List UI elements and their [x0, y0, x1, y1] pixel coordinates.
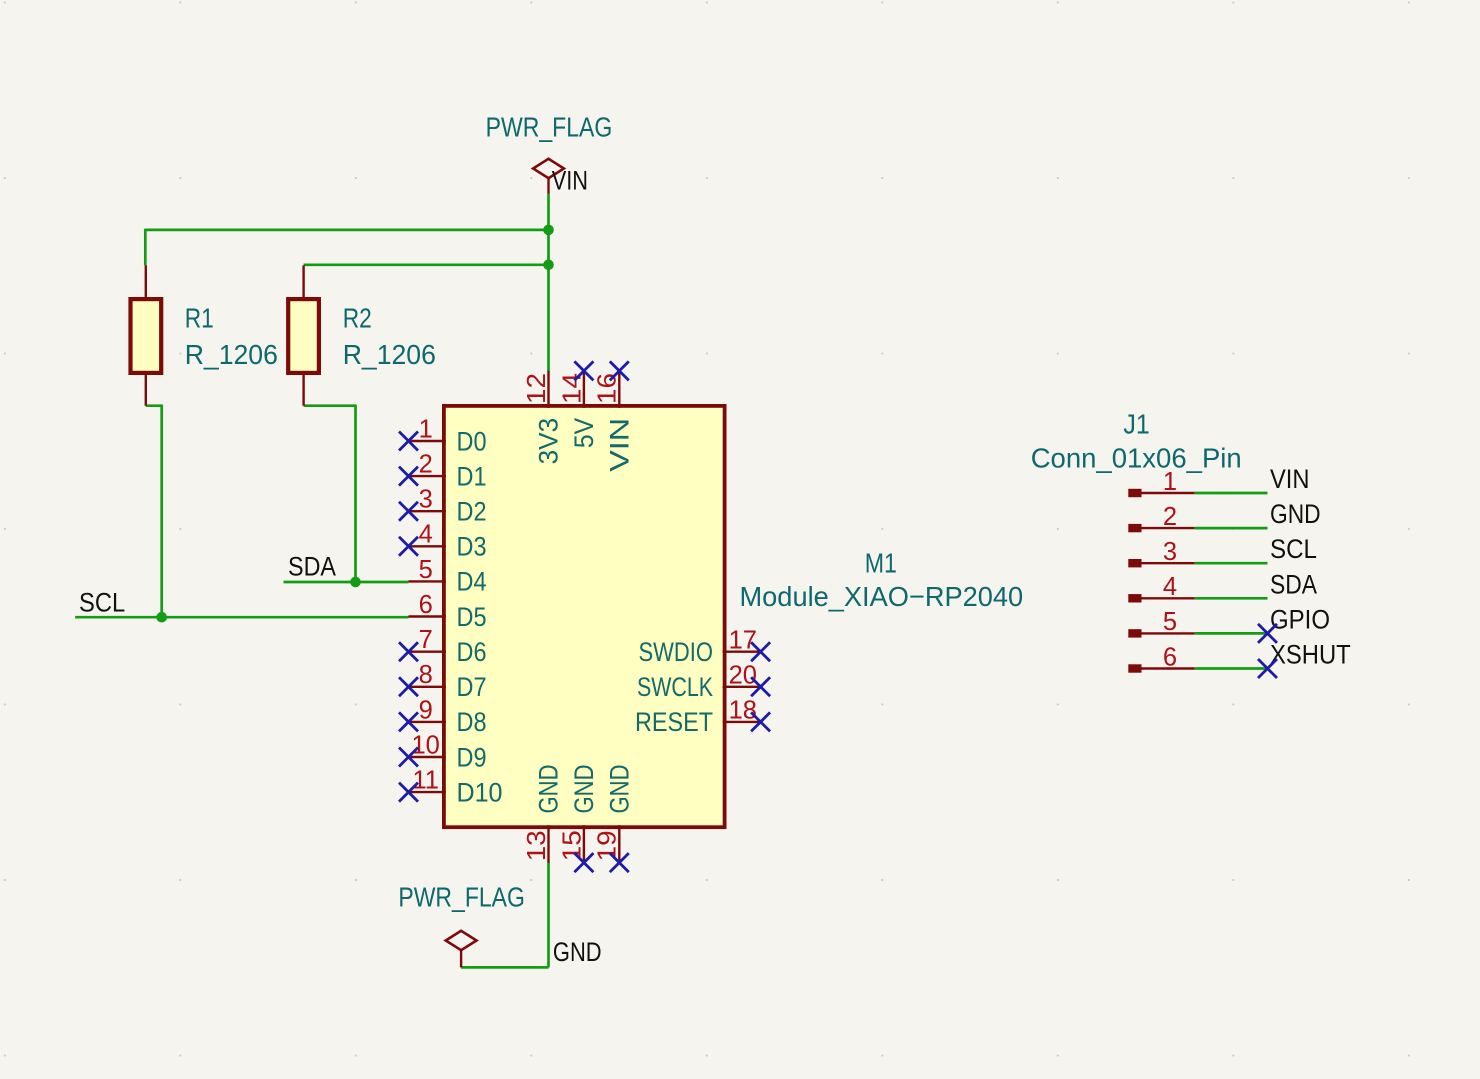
- junction: SDA wire to R2 branch: [350, 577, 361, 588]
- no-connect J1 pin 6: [1258, 659, 1277, 678]
- svg-text:GND: GND: [553, 937, 602, 967]
- wire: J1 pin 5 to net GPIO: [1195, 632, 1268, 635]
- wire: J1 pin 6 to net XSHUT: [1195, 667, 1268, 670]
- no-connect M1 pin 3: [399, 502, 418, 521]
- svg-text:D2: D2: [457, 497, 487, 527]
- M1 pin 2 (D1) left side: [409, 451, 487, 492]
- no-connect M1 pin 14: [574, 361, 593, 380]
- svg-text:9: 9: [419, 696, 433, 724]
- svg-text:R_1206: R_1206: [343, 339, 436, 370]
- M1 pin 9 (D8) left side: [409, 696, 487, 737]
- no-connect M1 pin 4: [399, 537, 418, 556]
- svg-text:8: 8: [419, 661, 433, 689]
- svg-text:GND: GND: [604, 765, 634, 814]
- power flag PWR_FLAG on VIN net: [533, 159, 564, 194]
- no-connect M1 pin 10: [399, 748, 418, 767]
- svg-text:11: 11: [412, 767, 438, 795]
- svg-text:4: 4: [419, 521, 433, 549]
- no-connect M1 pin 1: [399, 432, 418, 451]
- svg-text:SDA: SDA: [288, 551, 336, 581]
- svg-text:14: 14: [558, 373, 586, 404]
- svg-text:XSHUT: XSHUT: [1270, 640, 1351, 670]
- J1 pin 3: [1128, 538, 1194, 567]
- wire: R2 to SDA vertical: [354, 405, 357, 583]
- svg-text:SDA: SDA: [1270, 569, 1317, 599]
- svg-text:20: 20: [729, 661, 757, 689]
- svg-text:D4: D4: [457, 567, 487, 597]
- wire: J1 pin 4 to net SDA: [1195, 597, 1268, 600]
- wire: SCL horizontal: [75, 616, 408, 619]
- svg-text:7: 7: [419, 626, 433, 654]
- svg-text:D10: D10: [457, 777, 503, 807]
- svg-text:1: 1: [419, 415, 433, 443]
- svg-text:R1: R1: [185, 303, 214, 334]
- junction: VIN wire to R2 branch: [543, 260, 554, 271]
- no-connect M1 pin 9: [399, 712, 418, 731]
- no-connect M1 pin 8: [399, 677, 418, 696]
- svg-text:M1: M1: [865, 548, 897, 579]
- svg-text:3: 3: [1163, 538, 1177, 566]
- svg-text:D9: D9: [457, 742, 487, 772]
- svg-text:GPIO: GPIO: [1270, 604, 1330, 634]
- wire: R1 to SCL vertical: [160, 405, 163, 618]
- junction: SCL wire to R1 branch: [156, 612, 167, 623]
- svg-text:16: 16: [594, 373, 622, 404]
- svg-text:18: 18: [729, 697, 757, 725]
- svg-text:4: 4: [1163, 573, 1177, 601]
- svg-text:17: 17: [729, 626, 757, 654]
- M1 pin 14 (5V) top side: [558, 371, 599, 448]
- M1 pin 7 (D6) left side: [409, 626, 487, 667]
- no-connect M1 pin 7: [399, 642, 418, 661]
- svg-text:19: 19: [594, 830, 622, 861]
- wire: R1 bottom jog horizontal: [146, 404, 162, 407]
- wire: J1 pin 1 to net VIN: [1195, 492, 1268, 495]
- svg-text:12: 12: [523, 373, 551, 404]
- wire: VIN net horizontal to R2: [304, 263, 549, 266]
- M1 pin 3 (D2) left side: [409, 486, 487, 527]
- no-connect M1 pin 19: [610, 853, 629, 872]
- svg-text:1: 1: [1163, 468, 1177, 496]
- M1 pin 13 (GND) bottom side: [523, 765, 564, 863]
- svg-text:13: 13: [523, 830, 551, 861]
- wire: SDA horizontal: [284, 581, 409, 584]
- svg-text:5: 5: [419, 556, 433, 584]
- M1 pin 5 (D4) left side: [409, 556, 487, 597]
- no-connect M1 pin 18: [751, 712, 770, 731]
- svg-text:GND: GND: [534, 765, 564, 814]
- no-connect M1 pin 16: [610, 361, 629, 380]
- svg-text:D0: D0: [457, 426, 487, 456]
- svg-text:2: 2: [1163, 503, 1177, 531]
- resistor R2: [288, 265, 319, 405]
- no-connect M1 pin 17: [751, 642, 770, 661]
- wire: GND vertical from pin 13: [547, 862, 550, 968]
- svg-text:GND: GND: [569, 765, 599, 814]
- M1 pin 10 (D9) left side: [409, 731, 487, 772]
- svg-text:Module_XIAO−RP2040: Module_XIAO−RP2040: [740, 581, 1024, 612]
- svg-text:3: 3: [419, 486, 433, 514]
- M1 pin 17 (SWDIO) right side: [639, 626, 761, 667]
- svg-text:15: 15: [558, 830, 586, 861]
- J1 pin 4: [1128, 573, 1194, 602]
- M1 pin 20 (SWCLK) right side: [637, 661, 761, 702]
- J1 pin 2: [1128, 503, 1194, 532]
- svg-text:5: 5: [1163, 608, 1177, 636]
- M1 pin 12 (3V3) top side: [523, 371, 564, 465]
- svg-text:SWDIO: SWDIO: [639, 637, 714, 667]
- svg-text:RESET: RESET: [635, 707, 713, 737]
- wire: VIN vertical main from PWR_FLAG to pin 12: [547, 194, 550, 372]
- svg-text:VIN: VIN: [552, 166, 588, 196]
- junction: VIN wire to R1 branch: [543, 225, 554, 236]
- wire: GND horizontal to PWR_FLAG: [461, 966, 548, 969]
- wire: J1 pin 3 to net SCL: [1195, 562, 1268, 565]
- module M1 body: [444, 406, 725, 827]
- svg-text:VIN: VIN: [1270, 464, 1310, 494]
- wire: VIN net vertical drop to R1 top pin: [144, 229, 147, 266]
- no-connect M1 pin 15: [574, 853, 593, 872]
- svg-text:D5: D5: [457, 602, 487, 632]
- M1 pin 16 (VIN) top side: [594, 371, 635, 472]
- J1 pin 5: [1128, 608, 1194, 637]
- svg-text:R_1206: R_1206: [185, 339, 278, 370]
- wire: VIN net horizontal to R1: [145, 229, 548, 232]
- svg-text:PWR_FLAG: PWR_FLAG: [398, 882, 525, 913]
- svg-text:6: 6: [1163, 643, 1177, 671]
- M1 pin 15 (GND) bottom side: [558, 765, 599, 863]
- svg-text:SWCLK: SWCLK: [637, 672, 713, 702]
- svg-text:D1: D1: [457, 461, 487, 491]
- no-connect M1 pin 20: [751, 677, 770, 696]
- M1 pin 4 (D3) left side: [409, 521, 487, 562]
- J1 pin 6: [1128, 643, 1194, 672]
- M1 pin 19 (GND) bottom side: [594, 765, 635, 863]
- svg-text:D3: D3: [457, 532, 487, 562]
- svg-text:Conn_01x06_Pin: Conn_01x06_Pin: [1031, 442, 1242, 473]
- wire: J1 pin 2 to net GND: [1195, 527, 1268, 530]
- J1 pin 1: [1128, 468, 1194, 497]
- no-connect J1 pin 5: [1258, 624, 1277, 643]
- M1 pin 6 (D5) left side: [409, 591, 487, 632]
- svg-text:D6: D6: [457, 637, 487, 667]
- svg-text:10: 10: [412, 731, 440, 759]
- svg-text:6: 6: [419, 591, 433, 619]
- M1 pin 8 (D7) left side: [409, 661, 487, 702]
- no-connect M1 pin 2: [399, 467, 418, 486]
- svg-text:VIN: VIN: [604, 418, 634, 472]
- svg-text:GND: GND: [1270, 499, 1321, 529]
- svg-text:D8: D8: [457, 707, 487, 737]
- svg-text:3V3: 3V3: [534, 418, 564, 465]
- svg-text:J1: J1: [1123, 408, 1149, 439]
- M1 pin 11 (D10) left side: [409, 767, 503, 808]
- M1 pin 18 (RESET) right side: [635, 697, 761, 738]
- power flag PWR_FLAG on GND net: [446, 931, 477, 968]
- svg-text:R2: R2: [343, 303, 372, 334]
- svg-text:PWR_FLAG: PWR_FLAG: [486, 112, 613, 143]
- M1 pin 1 (D0) left side: [409, 415, 487, 456]
- svg-text:2: 2: [419, 451, 433, 479]
- no-connect M1 pin 11: [399, 783, 418, 802]
- svg-text:SCL: SCL: [1270, 534, 1317, 564]
- wire: R2 bottom jog horizontal: [304, 404, 356, 407]
- svg-text:5V: 5V: [569, 418, 599, 448]
- svg-text:D7: D7: [457, 672, 487, 702]
- resistor R1: [131, 265, 162, 405]
- svg-text:SCL: SCL: [79, 588, 125, 618]
